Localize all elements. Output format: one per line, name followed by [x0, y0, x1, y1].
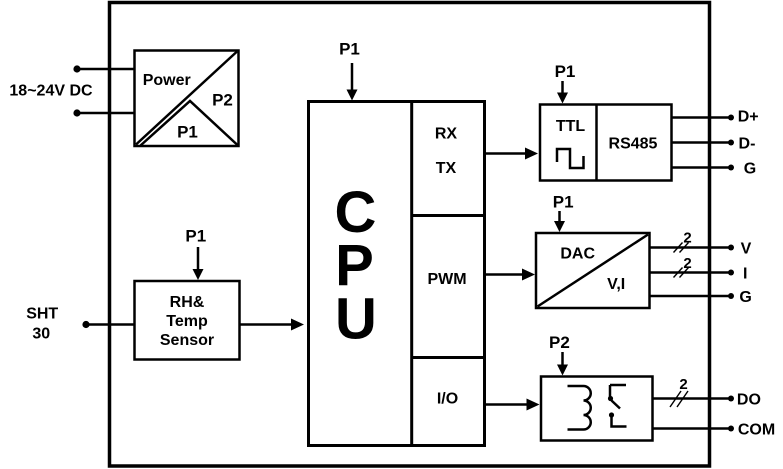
svg-text:D-: D- — [739, 135, 756, 152]
P1 arrow into CPU — [347, 63, 358, 101]
pulse waveform symbol inside TTL — [557, 149, 584, 168]
svg-text:V,I: V,I — [607, 276, 625, 293]
svg-text:2: 2 — [683, 255, 691, 272]
svg-text:P1: P1 — [185, 227, 206, 246]
svg-text:SHT: SHT — [26, 306, 58, 323]
RH& Temp Sensor block U-SENS — [135, 281, 240, 360]
P1 arrow into sensor — [193, 247, 204, 280]
svg-text:TX: TX — [436, 160, 457, 177]
svg-text:U: U — [335, 287, 377, 352]
wire V+ to Power — [77, 68, 134, 71]
P1 arrow into TTL — [557, 81, 568, 104]
wire COM — [653, 427, 732, 430]
svg-text:V: V — [741, 240, 752, 257]
svg-text:P1: P1 — [339, 40, 360, 59]
terminal dot DO — [728, 396, 734, 402]
P1 arrow into DAC — [554, 211, 565, 232]
wire G (DAC) — [650, 295, 732, 298]
DAC block U-DAC — [536, 233, 650, 308]
wire V — [650, 246, 732, 249]
svg-text:30: 30 — [32, 326, 50, 343]
svg-text:P1: P1 — [555, 62, 576, 81]
svg-text:DAC: DAC — [560, 246, 595, 263]
svg-text:2: 2 — [683, 230, 691, 247]
arrow sensor to CPU — [240, 319, 304, 331]
terminal dot I — [728, 270, 734, 276]
terminal dot D- — [728, 140, 734, 146]
terminal dot D+ — [728, 115, 734, 121]
wire V- to Power — [77, 112, 134, 115]
svg-text:PWM: PWM — [427, 271, 466, 288]
svg-text:D+: D+ — [738, 108, 759, 125]
svg-text:P2: P2 — [549, 333, 570, 352]
relay block K1 — [541, 377, 653, 441]
wire SHT to sensor — [86, 323, 135, 326]
svg-text:Temp: Temp — [166, 313, 208, 330]
arrow CPU RX/TX to TTL — [485, 148, 538, 160]
svg-text:P1: P1 — [177, 123, 198, 142]
svg-text:P2: P2 — [212, 91, 233, 110]
terminal dot G (RS485) — [728, 165, 734, 171]
svg-text:2: 2 — [679, 376, 687, 393]
terminal dot V+ — [73, 65, 80, 72]
outer enclosure border — [110, 3, 710, 467]
terminal dot G (DAC) — [728, 293, 734, 299]
terminal dot V- — [73, 109, 80, 116]
terminal dot V — [728, 245, 734, 251]
svg-text:I/O: I/O — [437, 391, 458, 408]
power supply module U-PWR (Power / P1 / P2) — [135, 51, 239, 147]
svg-text:Power: Power — [143, 72, 191, 89]
bus slash marks on DO (2 wires) — [670, 391, 688, 407]
svg-text:RX: RX — [435, 126, 458, 143]
svg-text:COM: COM — [738, 421, 775, 438]
wire D+ — [672, 116, 732, 119]
svg-text:I: I — [743, 265, 747, 282]
relay switch contact — [608, 385, 627, 427]
svg-text:DO: DO — [737, 391, 761, 408]
svg-text:RS485: RS485 — [609, 136, 658, 153]
bus slash marks on V (2 wires) — [674, 243, 689, 253]
arrow CPU I/O to relay — [485, 399, 540, 411]
wire I — [650, 271, 732, 274]
wire D- — [672, 141, 732, 144]
svg-text:RH&: RH& — [170, 294, 205, 311]
wire DO — [653, 397, 732, 400]
TTL / RS485 block U-485 — [540, 105, 672, 181]
svg-text:18~24V DC: 18~24V DC — [9, 83, 93, 100]
terminal dot COM — [728, 426, 734, 432]
terminal dot SHT — [82, 321, 89, 328]
P2 arrow into relay — [557, 352, 568, 376]
bus slash marks on I (2 wires) — [674, 268, 689, 278]
arrow CPU PWM to DAC — [485, 269, 535, 281]
wire G (RS485) — [672, 166, 732, 169]
svg-text:G: G — [744, 160, 756, 177]
svg-text:Sensor: Sensor — [160, 332, 214, 349]
svg-text:TTL: TTL — [556, 118, 586, 135]
relay coil — [568, 386, 591, 430]
CPU block U-CPU — [309, 102, 485, 446]
svg-text:G: G — [739, 289, 751, 306]
svg-text:P1: P1 — [553, 193, 574, 212]
